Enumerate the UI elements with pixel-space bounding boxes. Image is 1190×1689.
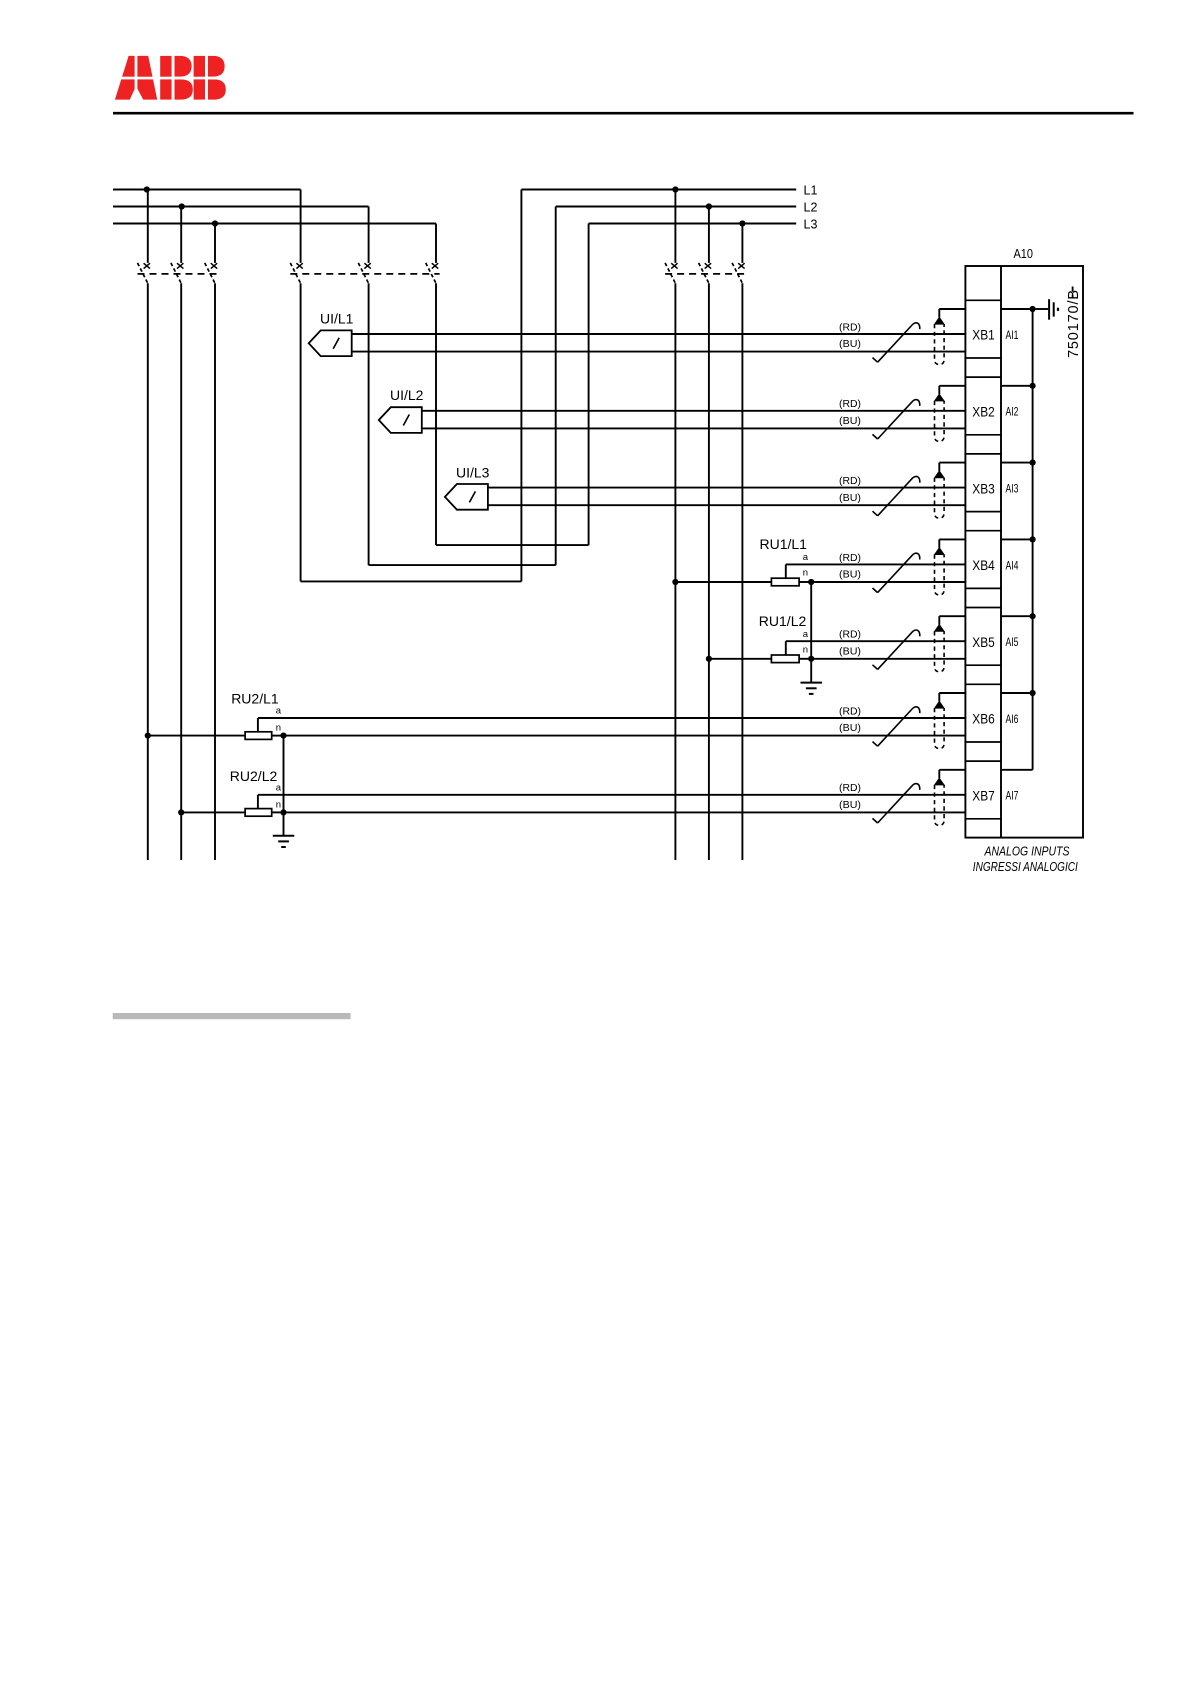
svg-text:AI4: AI4 (1006, 558, 1019, 572)
label RU1/L2 (759, 613, 807, 629)
svg-text:AI1: AI1 (1006, 328, 1019, 342)
twisted-pair mark row 7 (873, 784, 920, 823)
switch Q3 pole 2 (699, 207, 712, 284)
label RU1/L1 (760, 536, 808, 552)
bus L2 right segment (556, 206, 797, 208)
wire shield drain row 2 (939, 386, 965, 394)
label (RD) row 5 (839, 630, 861, 641)
svg-text:a: a (276, 706, 282, 717)
wire shield drain row 7 (939, 770, 965, 778)
separator bar (113, 1013, 351, 1019)
terminal XB4 divider top (965, 530, 1001, 532)
switch Q3 pole 3 (732, 224, 745, 284)
cable shield row 2 (935, 394, 945, 441)
switch Q2 pole 3 (426, 224, 439, 284)
node L2 label (804, 201, 818, 215)
svg-text:AI3: AI3 (1006, 482, 1019, 496)
svg-text:(RD): (RD) (839, 706, 861, 717)
svg-text:AI2: AI2 (1006, 405, 1019, 419)
cable shield row 5 (935, 625, 945, 672)
svg-text:L1: L1 (804, 183, 818, 197)
terminal XB7 divider bottom (965, 818, 1001, 820)
svg-text:UI/L1: UI/L1 (320, 311, 354, 327)
switch Q2 pole 1 (290, 190, 303, 284)
wire XB7 BU (284, 811, 966, 813)
svg-text:AI6: AI6 (1006, 712, 1019, 726)
switch Q1 pole 1 (138, 190, 151, 284)
terminal XB7 label (972, 789, 995, 804)
svg-text:(RD): (RD) (839, 322, 861, 333)
svg-text:RU2/L1: RU2/L1 (231, 690, 279, 706)
label UI/L3 (456, 465, 490, 481)
label (RD) row 4 (839, 553, 861, 564)
switch Q1 pole 2 (171, 207, 184, 284)
wire Q3 pole3 drop (741, 283, 743, 860)
svg-text:(RD): (RD) (839, 783, 861, 794)
label (RD) row 3 (839, 476, 861, 487)
label UI/L1 (320, 311, 354, 327)
module A10 outline (965, 266, 1083, 838)
pin AI2 label (1006, 405, 1019, 419)
twisted-pair mark row 6 (873, 707, 920, 746)
resistor RU1/L2 (706, 641, 815, 662)
transducer UI/L3 (445, 484, 488, 510)
wire shield drain row 4 (939, 539, 965, 547)
terminal XB5 label (972, 635, 995, 650)
label (BU) row 2 (839, 416, 861, 427)
pin AI5 label (1006, 635, 1019, 649)
ground bus A10 (1001, 306, 1036, 770)
terminal XB6 divider bottom (965, 741, 1001, 743)
svg-text:n: n (803, 568, 808, 579)
label RU2/L2 (230, 768, 278, 784)
pin AI4 label (1006, 558, 1019, 572)
svg-text:XB2: XB2 (972, 405, 995, 420)
svg-text:(BU): (BU) (839, 723, 861, 734)
label (BU) row 4 (839, 570, 861, 581)
svg-text:(BU): (BU) (839, 339, 861, 350)
svg-text:(RD): (RD) (839, 553, 861, 564)
terminal XB1 divider top (965, 299, 1001, 301)
pin a RU1/L1 (803, 552, 809, 563)
resistor RU2/L1 (145, 718, 287, 739)
svg-text:(RD): (RD) (839, 630, 861, 641)
pin a RU1/L2 (803, 629, 809, 640)
svg-text:L3: L3 (804, 217, 818, 231)
svg-text:AI5: AI5 (1006, 635, 1019, 649)
cable shield row 4 (935, 548, 945, 595)
junction dot L2-Q1 (179, 203, 185, 209)
wire link L3 riser (588, 224, 590, 546)
bus L3 right segment (589, 223, 797, 225)
svg-text:XB7: XB7 (972, 789, 995, 804)
svg-text:(BU): (BU) (839, 570, 861, 581)
caption INGRESSI ANALOGICI (973, 860, 1078, 874)
pin AI1 label (1006, 328, 1019, 342)
switch Q3 linkage (665, 273, 746, 275)
bus L1 right segment (521, 189, 796, 191)
wire XB5 BU (811, 658, 965, 660)
svg-text:L2: L2 (804, 201, 818, 215)
svg-text:(BU): (BU) (839, 646, 861, 657)
junction dot L3-Q1 (212, 220, 218, 226)
wire Q2 pole1 drop (300, 283, 302, 581)
label (BU) row 1 (839, 339, 861, 350)
wire Q1 pole1 drop (147, 283, 149, 860)
svg-text:XB5: XB5 (972, 635, 995, 650)
wire shield drain row 5 (939, 616, 965, 624)
ground RU2 (273, 736, 295, 847)
twisted-pair mark row 5 (873, 630, 920, 669)
resistor RU1/L1 (672, 564, 814, 585)
svg-text:n: n (276, 799, 281, 810)
svg-text:RU1/L1: RU1/L1 (760, 536, 808, 552)
terminal XB3 divider top (965, 453, 1001, 455)
switch Q1 pole 3 (205, 224, 218, 284)
switch Q1 linkage (138, 273, 219, 275)
ground RU1 (801, 582, 823, 694)
wire link L1 riser (520, 190, 522, 582)
svg-text:AI7: AI7 (1006, 789, 1019, 803)
resistor RU2/L2 (178, 795, 287, 816)
wire link L1 horizontal (301, 580, 522, 582)
cable shield row 7 (935, 778, 945, 825)
terminal XB5 divider bottom (965, 664, 1001, 666)
label (BU) row 3 (839, 493, 861, 504)
wire Q1 pole3 drop (214, 283, 216, 860)
wire XB4 RD (786, 563, 966, 565)
wire Q1 pole2 drop (180, 283, 182, 860)
label (BU) row 5 (839, 646, 861, 657)
svg-text:a: a (276, 782, 282, 793)
wire Q2 pole3 drop (435, 283, 437, 545)
svg-text:(RD): (RD) (839, 476, 861, 487)
wire XB5 RD (786, 640, 966, 642)
wire XB6 RD (258, 717, 966, 719)
label 750170/B (1066, 290, 1082, 358)
terminal XB2 label (972, 405, 995, 420)
label (RD) row 2 (839, 399, 861, 410)
junction dot L1-Q3 (672, 186, 678, 192)
svg-text:a: a (803, 629, 809, 640)
node L1 label (804, 183, 818, 197)
pin a RU2/L1 (276, 706, 282, 717)
switch Q2 linkage (290, 273, 439, 275)
wire XB2 RD (422, 410, 966, 412)
svg-text:(RD): (RD) (839, 399, 861, 410)
wire Q2 pole2 drop (368, 283, 370, 565)
switch Q3 pole 1 (665, 190, 678, 284)
bus L2 left segment (113, 206, 369, 208)
label (RD) row 6 (839, 706, 861, 717)
dash after 750170/B (1072, 287, 1074, 299)
label A10 (1014, 246, 1034, 261)
cable shield row 6 (935, 701, 945, 748)
node L3 label (804, 217, 818, 231)
wire shield drain row 6 (939, 693, 965, 701)
svg-text:(BU): (BU) (839, 800, 861, 811)
pin n RU1/L1 (803, 568, 808, 579)
svg-text:RU2/L2: RU2/L2 (230, 768, 278, 784)
wire XB7 RD (258, 794, 966, 796)
cable shield row 1 (935, 317, 945, 364)
twisted-pair mark row 2 (873, 400, 920, 439)
junction dot L3-Q3 (739, 220, 745, 226)
svg-text:XB4: XB4 (972, 558, 995, 573)
wire XB1 BU (352, 351, 966, 353)
wire Q3 pole2 drop (708, 283, 710, 860)
caption ANALOG INPUTS (984, 844, 1070, 858)
svg-text:INGRESSI ANALOGICI: INGRESSI ANALOGICI (973, 860, 1078, 874)
terminal XB6 label (972, 712, 995, 727)
wire XB3 RD (488, 487, 966, 489)
label (RD) row 7 (839, 783, 861, 794)
terminal XB3 divider bottom (965, 511, 1001, 513)
twisted-pair mark row 3 (873, 476, 920, 515)
terminal XB1 divider bottom (965, 357, 1001, 359)
terminal XB5 divider top (965, 607, 1001, 609)
pin AI7 label (1006, 789, 1019, 803)
wire link L3 horizontal (436, 544, 589, 546)
label (RD) row 1 (839, 322, 861, 333)
bus L3 left segment (113, 223, 436, 225)
wire XB1 RD (352, 333, 966, 335)
ABB logo (110, 54, 230, 101)
label (BU) row 6 (839, 723, 861, 734)
junction dot L2-Q3 (706, 203, 712, 209)
terminal XB1 label (972, 328, 995, 343)
svg-text:n: n (276, 723, 281, 734)
transducer UI/L1 (309, 330, 352, 356)
svg-text:(BU): (BU) (839, 493, 861, 504)
pin n RU2/L2 (276, 799, 281, 810)
twisted-pair mark row 4 (873, 553, 920, 592)
label (BU) row 7 (839, 800, 861, 811)
terminal XB3 label (972, 481, 995, 496)
wire XB2 BU (422, 427, 966, 429)
terminal XB4 label (972, 558, 995, 573)
label UI/L2 (390, 387, 424, 403)
terminal XB4 divider bottom (965, 587, 1001, 589)
header rule (113, 112, 1134, 115)
wire Q3 pole1 drop (674, 283, 676, 860)
switch Q2 pole 2 (358, 207, 371, 284)
terminal XB2 divider bottom (965, 434, 1001, 436)
bus L1 left segment (113, 189, 301, 191)
wire shield drain row 3 (939, 463, 965, 471)
terminal XB7 divider top (965, 760, 1001, 762)
svg-text:A10: A10 (1014, 246, 1034, 261)
wire XB3 BU (488, 504, 966, 506)
label RU2/L1 (231, 690, 279, 706)
svg-text:UI/L3: UI/L3 (456, 465, 490, 481)
svg-text:750170/B: 750170/B (1066, 290, 1082, 358)
svg-text:RU1/L2: RU1/L2 (759, 613, 807, 629)
terminal XB2 divider top (965, 376, 1001, 378)
cable shield row 3 (935, 471, 945, 518)
wire link L2 horizontal (369, 564, 556, 566)
svg-text:ANALOG INPUTS: ANALOG INPUTS (984, 844, 1070, 858)
wire link L2 riser (555, 207, 557, 566)
svg-text:UI/L2: UI/L2 (390, 387, 424, 403)
svg-text:n: n (803, 645, 808, 656)
twisted-pair mark row 1 (873, 323, 920, 362)
svg-text:XB6: XB6 (972, 712, 995, 727)
svg-text:a: a (803, 552, 809, 563)
svg-text:XB3: XB3 (972, 481, 995, 496)
chassis ground A10 (1033, 299, 1058, 320)
svg-text:(BU): (BU) (839, 416, 861, 427)
pin AI6 label (1006, 712, 1019, 726)
pin n RU2/L1 (276, 723, 281, 734)
wire XB6 BU (284, 735, 966, 737)
pin AI3 label (1006, 482, 1019, 496)
wire shield drain row 1 (939, 309, 965, 317)
wire XB4 BU (811, 581, 965, 583)
svg-text:XB1: XB1 (972, 328, 995, 343)
junction dot L1-Q1 (144, 186, 150, 192)
pin n RU1/L2 (803, 645, 808, 656)
pin a RU2/L2 (276, 782, 282, 793)
transducer UI/L2 (379, 407, 422, 433)
terminal XB6 divider top (965, 683, 1001, 685)
